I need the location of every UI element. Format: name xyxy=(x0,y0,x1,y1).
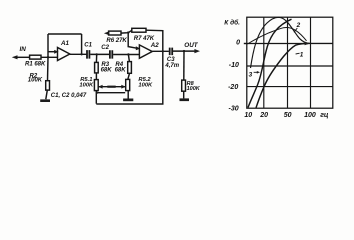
svg-text:100K: 100K xyxy=(79,82,94,88)
wire R2 to ground xyxy=(46,90,48,99)
ground R2 xyxy=(40,99,50,102)
curve 1 xyxy=(256,43,309,107)
wire R4 to R5.2 xyxy=(128,73,130,79)
node junction n1 xyxy=(96,53,98,55)
svg-text:IN: IN xyxy=(20,46,27,53)
wire n2 drop to R4 xyxy=(128,55,129,62)
node OUT terminal arrow xyxy=(194,49,200,53)
svg-text:0: 0 xyxy=(236,40,240,47)
svg-text:A1: A1 xyxy=(60,40,69,47)
wire n1 drop to R3 xyxy=(95,54,97,62)
resistor R3 xyxy=(95,62,99,73)
resistor R1 xyxy=(30,55,41,59)
node junction feedback/output xyxy=(80,53,82,55)
svg-text:100K: 100K xyxy=(28,78,43,84)
svg-text:68K: 68K xyxy=(115,68,127,74)
node junction OUT/R8 xyxy=(183,50,185,52)
svg-text:-30: -30 xyxy=(229,105,239,112)
wire arrow to R6 xyxy=(107,32,109,34)
wire node to A2 inverting input xyxy=(128,33,137,49)
potentiometer R5.1 xyxy=(94,80,98,91)
wire bottom rail to A2 output xyxy=(96,51,163,104)
op-amp A2 xyxy=(139,45,152,58)
ground R8 xyxy=(180,98,190,101)
node merge arrowhead xyxy=(305,42,310,46)
wire A1 feedback right leg xyxy=(81,34,83,54)
svg-text:4,7m: 4,7m xyxy=(164,63,179,69)
wire R2 drop xyxy=(47,57,50,80)
resistor R2 xyxy=(46,81,50,90)
svg-text:-20: -20 xyxy=(228,84,238,91)
graph frame xyxy=(247,17,333,108)
wire label1 arrow xyxy=(296,52,300,55)
curve 2 boost with peak xyxy=(251,17,333,68)
wire C1 to C2 xyxy=(90,53,109,55)
wire gang link thick xyxy=(107,86,115,88)
curve gentle diagonal xyxy=(248,27,307,44)
wire wiper link R5.1-R5.2 xyxy=(98,86,126,88)
svg-text:R6 27K: R6 27K xyxy=(106,38,127,44)
node junction R5.1 bottom xyxy=(96,92,98,94)
wire A1 feedback top xyxy=(48,33,82,35)
svg-text:OUT: OUT xyxy=(184,42,198,49)
node junction A2 out/feedback xyxy=(162,50,164,52)
node R6 tap arrow xyxy=(104,31,109,35)
node A2 input arrowhead xyxy=(136,46,141,50)
op-amp A1 xyxy=(58,48,70,61)
gridline 0 dB xyxy=(247,43,333,45)
svg-text:100K: 100K xyxy=(138,82,153,88)
svg-text:C1: C1 xyxy=(84,42,92,48)
svg-text:К дб.: К дб. xyxy=(224,18,240,26)
ground R5.2 xyxy=(123,99,133,102)
svg-text:68K: 68K xyxy=(101,68,113,74)
svg-text:R1 68K: R1 68K xyxy=(25,61,46,67)
gridline 50 Hz xyxy=(287,17,289,108)
wire R8 drop xyxy=(183,51,185,80)
resistor R7 xyxy=(132,28,146,32)
potentiometer R5.2 xyxy=(126,79,130,90)
wire IN to R1 xyxy=(16,56,30,58)
svg-text:50: 50 xyxy=(284,112,292,119)
node junction R6/R7 xyxy=(127,31,129,33)
node junction n2 xyxy=(127,53,129,55)
svg-text:20: 20 xyxy=(259,112,268,119)
gridline -10 dB xyxy=(247,65,333,67)
wire label3 arrow xyxy=(254,71,258,73)
wire R5.2 to ground xyxy=(127,91,129,99)
wire A1 upper input stub xyxy=(48,51,58,53)
node wiper arrow left xyxy=(98,85,102,89)
gridline 100 Hz xyxy=(310,17,312,108)
wire C3 to OUT xyxy=(173,50,197,52)
svg-text:10: 10 xyxy=(244,112,252,119)
resistor R6 xyxy=(109,31,121,35)
curve 3 steep xyxy=(248,19,292,107)
wire R6 to R7 xyxy=(121,30,132,33)
wire A1 output xyxy=(70,53,87,55)
wire R3 to R5.1 xyxy=(95,73,97,80)
svg-text:2: 2 xyxy=(296,22,301,29)
capacitor C3 xyxy=(170,48,173,56)
node wiper arrow right xyxy=(121,85,125,89)
svg-text:100K: 100K xyxy=(187,86,201,92)
tick 0 xyxy=(244,43,247,45)
capacitor C1 xyxy=(87,50,89,59)
wire R8 to ground xyxy=(183,91,185,98)
svg-text:C2: C2 xyxy=(101,45,109,51)
node IN terminal arrow xyxy=(12,55,18,59)
wire R1 to A1 input node xyxy=(41,56,58,58)
wire R5.1 lower stub xyxy=(98,92,125,94)
resistor R8 xyxy=(182,80,186,91)
wire C2 to A2 xyxy=(113,54,139,56)
wire A1 feedback left leg xyxy=(47,34,49,57)
wire label2 arrow xyxy=(294,28,297,32)
svg-text:3: 3 xyxy=(249,72,253,79)
wire A2 output xyxy=(152,50,169,52)
svg-text:-10: -10 xyxy=(229,62,239,69)
gridline -20 dB xyxy=(247,86,333,88)
capacitor C2 xyxy=(110,50,112,58)
node A1 input arrowhead xyxy=(54,50,58,54)
svg-text:1: 1 xyxy=(300,51,304,58)
svg-text:C1, C2 0,047: C1, C2 0,047 xyxy=(51,93,87,99)
wire R5.1 bottom drop xyxy=(95,91,97,104)
node junction A1 input xyxy=(47,56,49,58)
svg-text:гц: гц xyxy=(320,112,329,119)
svg-text:A2: A2 xyxy=(150,42,159,49)
resistor R4 xyxy=(128,62,132,74)
wire R7 to feedback leg xyxy=(146,30,163,51)
svg-text:100: 100 xyxy=(304,112,316,119)
gridline 20 Hz xyxy=(263,17,265,108)
